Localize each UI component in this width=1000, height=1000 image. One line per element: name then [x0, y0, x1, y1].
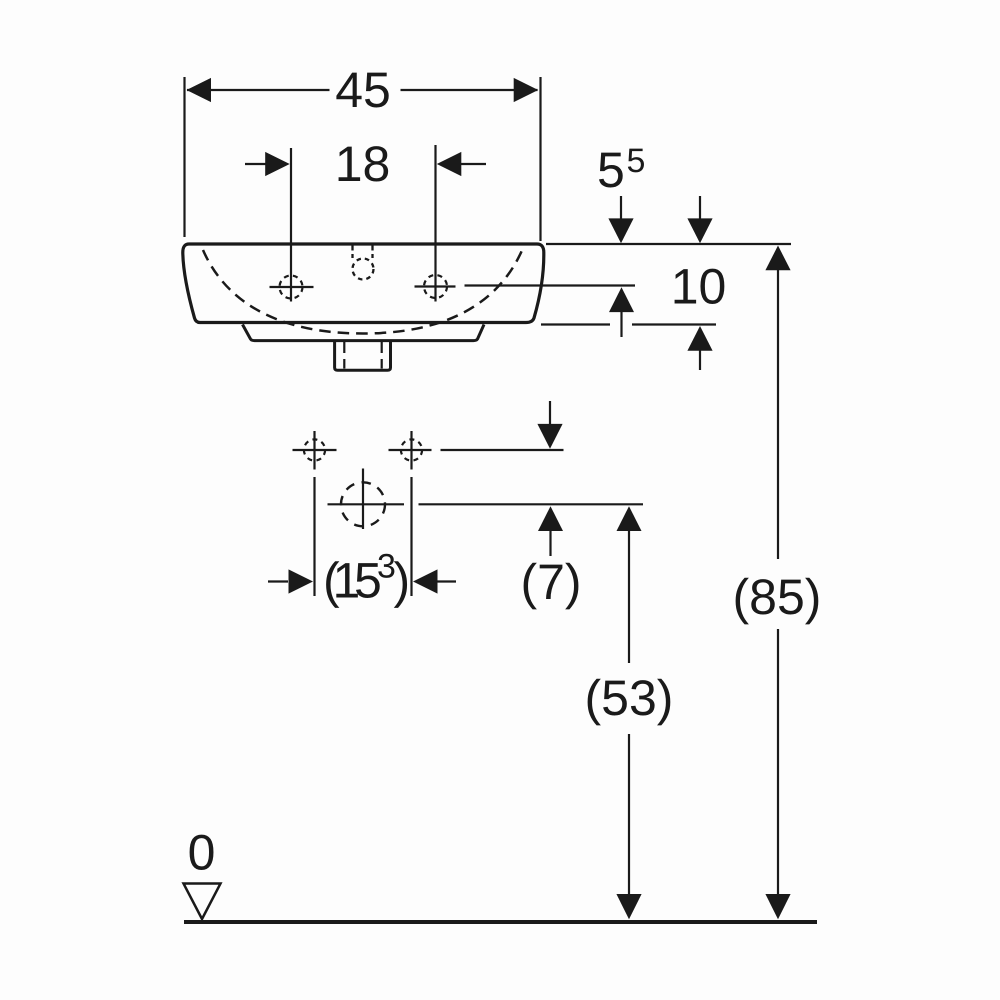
dimension 18: left arrow — [245, 163, 266, 165]
dimension 45: left extension line — [183, 77, 185, 237]
svg-text:10: 10 — [671, 259, 727, 315]
svg-text:0: 0 — [188, 825, 216, 881]
washbasin body outline — [183, 244, 544, 323]
dimension 45: left arrowhead — [187, 78, 212, 102]
(7) down arrow — [549, 401, 551, 424]
(15_3) left arrow — [268, 580, 288, 582]
pedestal rim — [243, 325, 485, 341]
drain box inner dashed lines — [344, 342, 381, 369]
svg-text:5: 5 — [627, 142, 646, 180]
datum triangle — [184, 884, 221, 920]
floor line — [184, 920, 817, 924]
svg-text:5: 5 — [597, 142, 625, 198]
wall hole level line for (7) — [441, 449, 564, 451]
tap hole left — [280, 276, 303, 299]
dim 5.5: down arrow — [620, 196, 622, 221]
dimension 45: right arrowhead — [514, 78, 539, 102]
drain hole dashed circle — [341, 482, 385, 526]
(7) up arrow — [538, 506, 563, 531]
dimension 18: right arrow — [461, 163, 487, 165]
extension line 18 left / tap centerline — [290, 148, 292, 302]
(53) down arrowhead at floor — [616, 894, 641, 919]
tap level extension line for 10 — [465, 284, 636, 286]
drain hole crosshair — [328, 469, 405, 530]
drain level line for (7)/(53) — [419, 503, 644, 505]
dim 10: up arrow — [687, 326, 712, 351]
tap hole right — [424, 275, 447, 298]
(53) up arrow and line — [617, 506, 642, 531]
(85) down arrowhead at floor — [765, 894, 790, 919]
svg-text:18: 18 — [335, 136, 391, 192]
top edge extension line to (85) — [546, 243, 791, 245]
dim 5.5: up arrow — [609, 287, 634, 312]
svg-text:45: 45 — [335, 62, 391, 118]
svg-text:(85): (85) — [733, 569, 822, 625]
dim 10: down arrow — [687, 218, 712, 243]
svg-text:(7): (7) — [520, 554, 581, 610]
overflow channel dashed lines — [353, 246, 373, 259]
(15_3) right arrow — [437, 580, 456, 582]
overflow hole dashed circle — [353, 259, 374, 280]
bottom edge extension line — [541, 323, 716, 325]
basin bowl dashed curve — [203, 248, 523, 334]
wall hole right — [401, 439, 422, 460]
(85) up arrow and line — [765, 246, 790, 271]
dimension 45: line — [187, 89, 538, 91]
dimension 45: right extension line — [539, 77, 541, 241]
svg-text:): ) — [394, 553, 411, 609]
drain box — [335, 341, 391, 370]
svg-text:(53): (53) — [585, 670, 674, 726]
wall hole left — [304, 439, 325, 460]
(15_3) extension lines — [315, 477, 412, 596]
extension line 18 right / tap centerline — [434, 145, 436, 302]
